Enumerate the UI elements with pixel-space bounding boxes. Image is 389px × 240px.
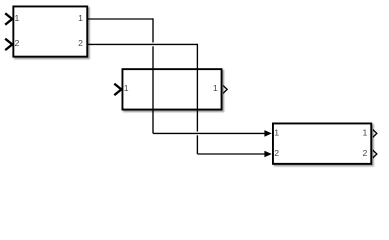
- B3 unconnected output port chevron 2: [373, 149, 378, 158]
- svg-text:1: 1: [274, 127, 279, 137]
- wire W2 horizontal segment from B1 out2 (crosses W1 vertical): [88, 43, 198, 45]
- subsystem block B2 (1-in 1-out, middle): [122, 69, 221, 109]
- svg-text:2: 2: [363, 148, 368, 158]
- subsystem block B3 (2-in 2-out, bottom right): [273, 123, 371, 163]
- svg-text:2: 2: [78, 38, 83, 48]
- wire W1 horizontal segment from B1 out1: [88, 18, 154, 20]
- wire W1 vertical segment lower part (passes over block B2): [152, 46, 154, 133]
- svg-text:1: 1: [78, 13, 83, 23]
- svg-text:1: 1: [124, 83, 129, 93]
- wire W2 vertical segment upper part (passes over block B2, ends at crossing gap with W1): [196, 44, 198, 132]
- svg-text:2: 2: [274, 148, 279, 158]
- B3 unconnected output port chevron 1: [373, 129, 378, 138]
- wire W1 horizontal segment into B3 in1: [153, 132, 265, 134]
- wire W1 vertical segment upper part (ends at crossing gap with W2): [152, 18, 154, 42]
- wire W1: B1 out1 to B3 in1: [88, 18, 266, 133]
- wire W2 horizontal segment into B3 in2: [197, 153, 265, 155]
- svg-text:1: 1: [15, 13, 20, 23]
- svg-text:1: 1: [213, 83, 218, 93]
- wire W2 vertical segment lower part: [196, 135, 198, 154]
- svg-text:1: 1: [363, 127, 368, 137]
- B1 unconnected input port chevron 2: [5, 39, 13, 50]
- B2 unconnected input port chevron: [114, 84, 122, 95]
- B1 unconnected input port chevron 1: [5, 13, 13, 24]
- wire W1 arrowhead at B3 in1: [264, 130, 271, 137]
- B2 unconnected output port chevron: [223, 85, 228, 94]
- wire W2 arrowhead at B3 in2: [264, 151, 271, 158]
- wire W2: B1 out2 to B3 in2: [88, 44, 266, 154]
- svg-text:2: 2: [15, 38, 20, 48]
- subsystem block B1 (2-in 2-out, top left): [13, 6, 87, 56]
